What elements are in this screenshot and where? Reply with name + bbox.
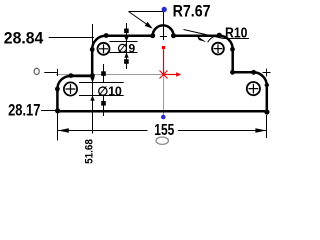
centerline above bump (thin black) <box>163 12 165 36</box>
part outline <box>57 25 266 111</box>
dimension D10 (diameter 10) <box>79 64 124 134</box>
sketch Y axis below origin (grey) <box>163 75 165 118</box>
dimension 51.68 (rotated) <box>84 139 96 164</box>
svg-text:∅10: ∅10 <box>97 85 121 99</box>
svg-text:∅9: ∅9 <box>117 42 136 56</box>
hole upper-left (circle with crosshair) <box>98 43 110 55</box>
virtual sharp cross <box>263 69 271 77</box>
origin symbol (red) <box>160 46 182 79</box>
dimension R7.67 <box>129 3 211 29</box>
svg-text:28.17: 28.17 <box>8 100 40 119</box>
dimension D9 (diameter 9) <box>110 23 138 69</box>
svg-text:R7.67: R7.67 <box>173 3 211 21</box>
blue endpoint dot bottom <box>161 115 166 120</box>
hole lower-left <box>64 82 77 95</box>
vertex dots on outline <box>55 33 270 115</box>
dimension 28.84 <box>4 24 94 49</box>
dimension 28.17 <box>8 100 57 119</box>
hole upper-right <box>212 43 224 55</box>
dimension 155 <box>58 113 267 144</box>
bump arc center cross <box>160 33 167 40</box>
hole lower-right <box>247 82 260 95</box>
sketch X axis (grey) <box>56 74 164 76</box>
svg-text:28.84: 28.84 <box>4 28 44 47</box>
dimension R10 <box>184 25 250 43</box>
svg-text:51.68: 51.68 <box>84 139 96 164</box>
blue endpoint dot top <box>162 7 167 12</box>
dimension 0 (ordinate) <box>34 68 57 76</box>
